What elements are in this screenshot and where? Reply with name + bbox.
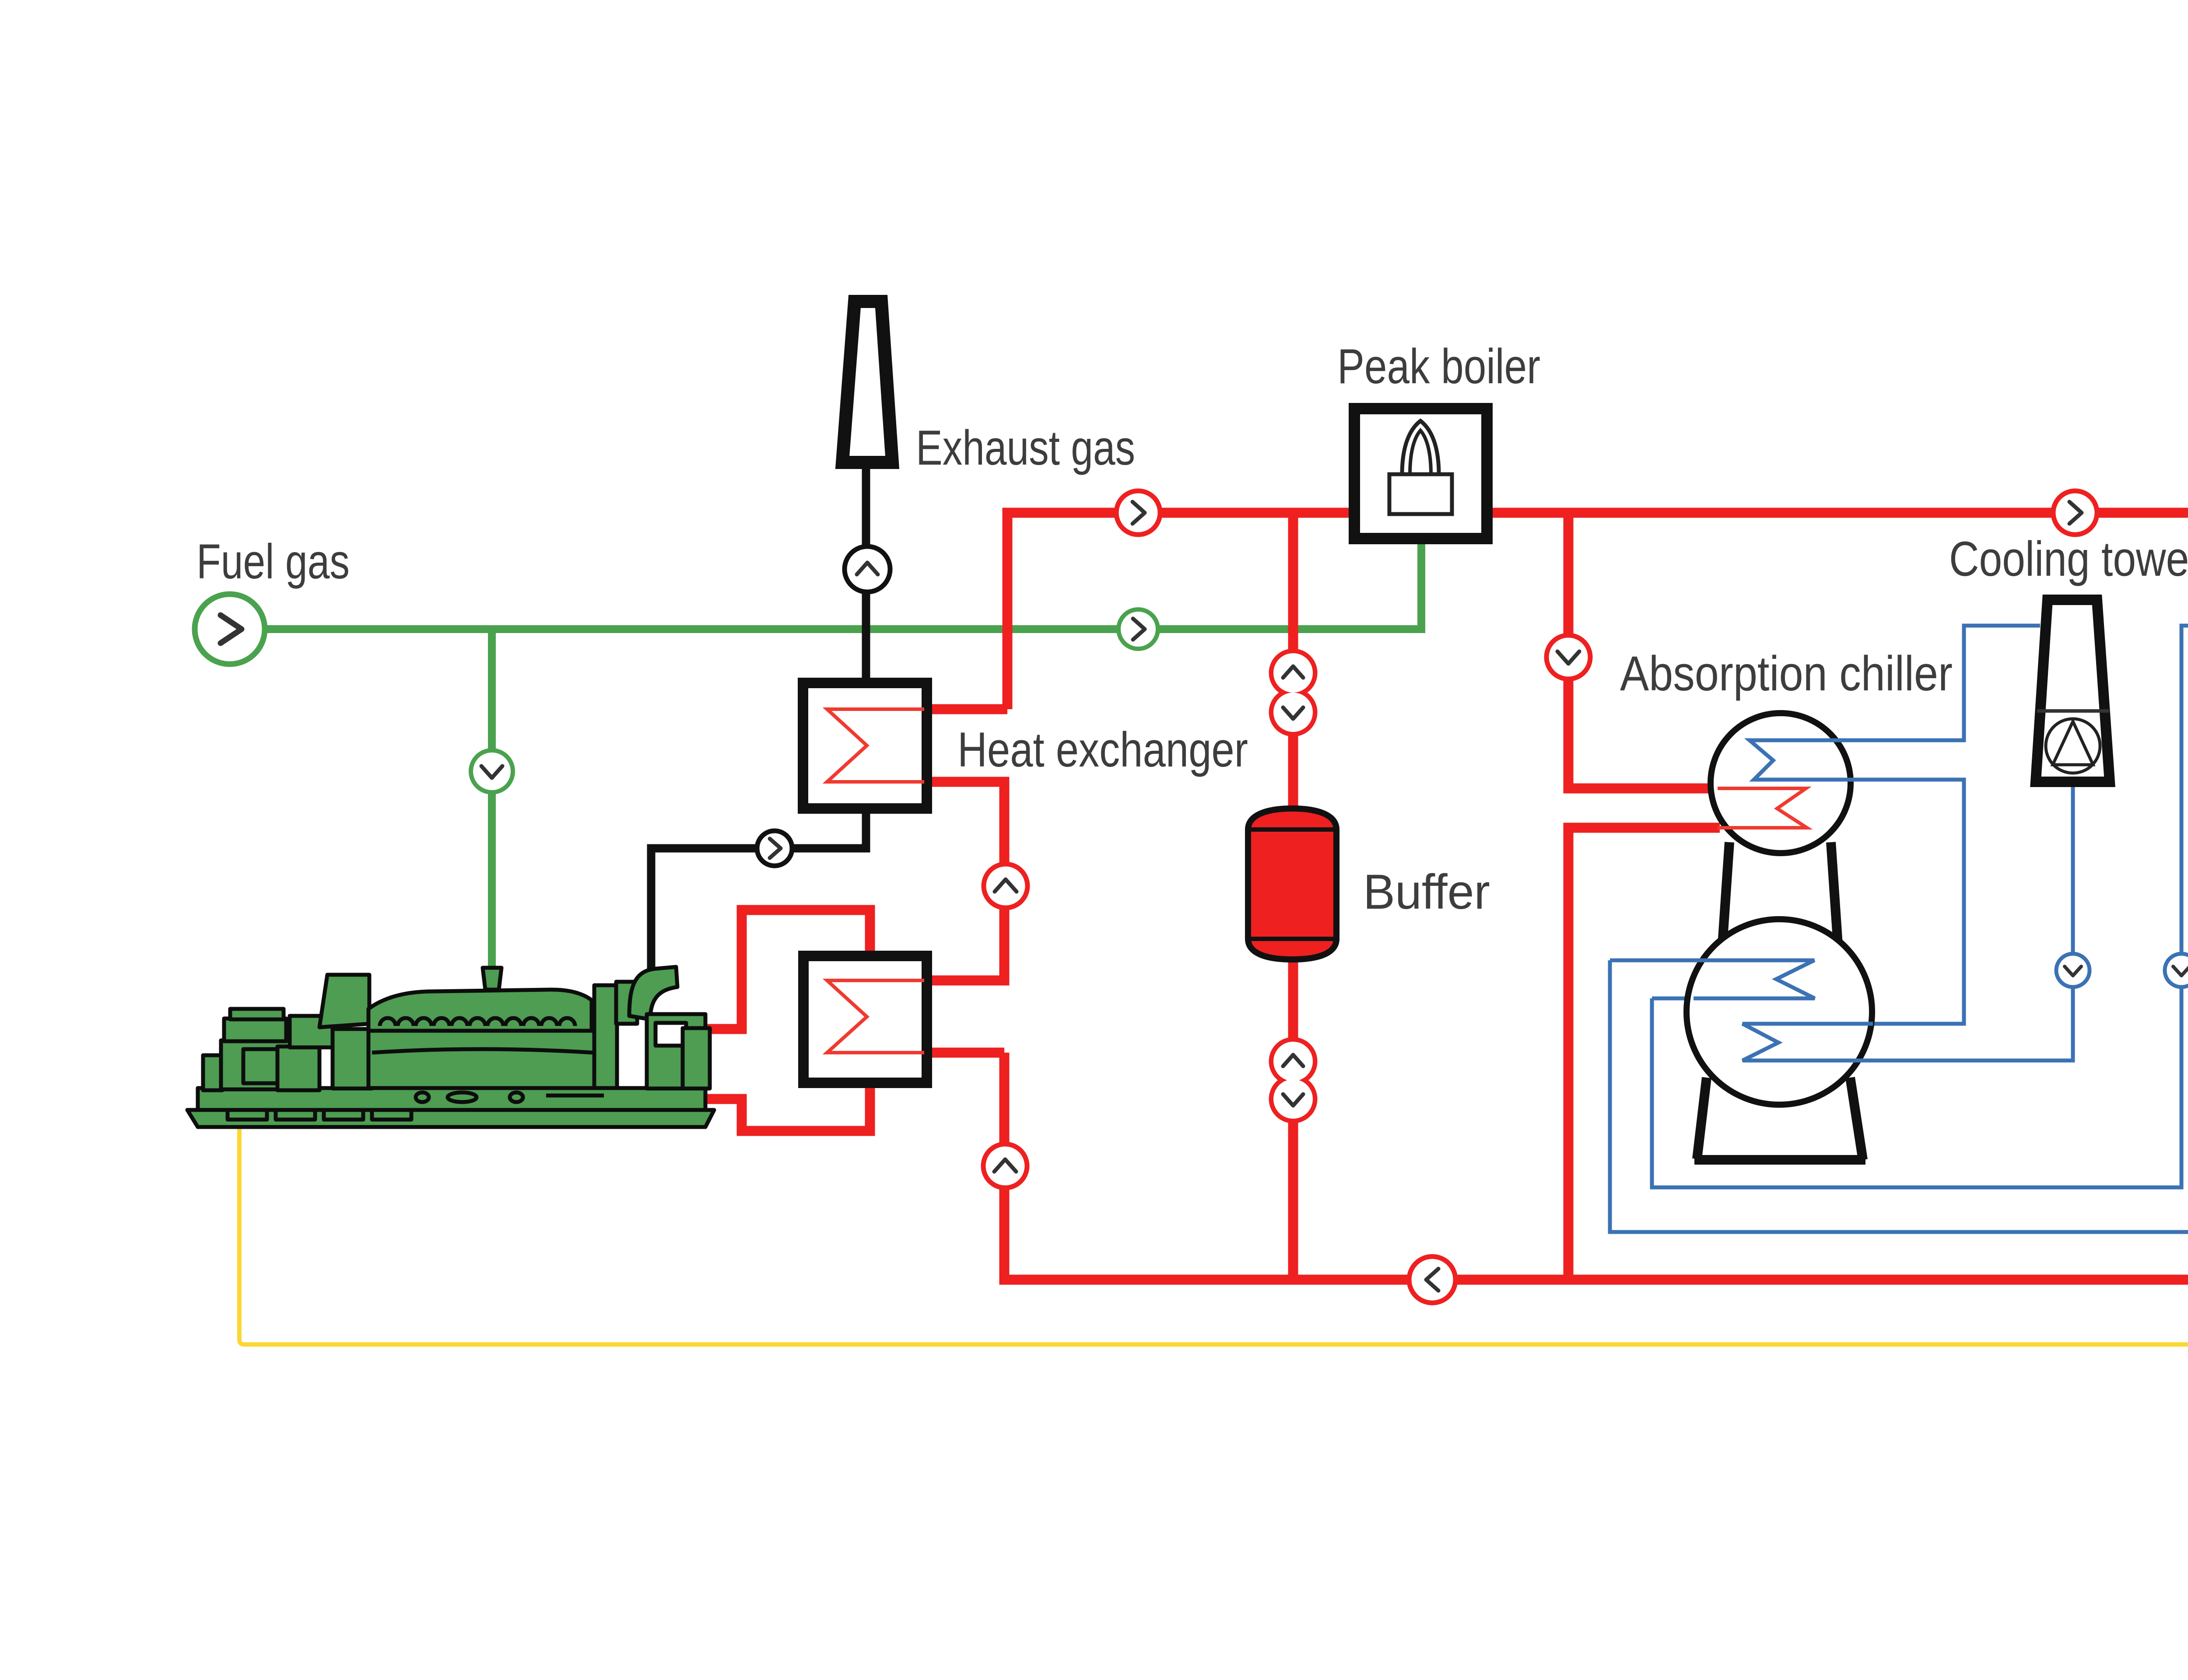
node: blue flow arrow down on consumer return bbox=[2165, 954, 2188, 987]
wire: heat exchanger 2 bottom port (red) bbox=[932, 1048, 1004, 1058]
wire: chilled water supply chiller to refrigeration consumer loop (blue) bbox=[1610, 626, 2188, 1232]
peak boiler burner rectangle bbox=[1389, 474, 1452, 514]
wire: electrical energy (yellow) bbox=[239, 1063, 2188, 1344]
engine left cabinet lower bbox=[221, 1040, 290, 1089]
node: black flow arrow right on exhaust line bbox=[757, 831, 792, 866]
node: red double valve (peanut) below buffer bbox=[1271, 1039, 1315, 1121]
peak boiler box bbox=[1354, 409, 1487, 539]
node: red flow arrow left on bottom return line bbox=[1409, 1256, 1455, 1303]
engine base ovals bbox=[416, 1092, 429, 1102]
node: green flow arrow down on engine fuel branch bbox=[471, 750, 513, 792]
wire: cooling water bottom circle to tower bottom (blue) bbox=[1869, 785, 2073, 1060]
absorption chiller top circle (generator) bbox=[1711, 713, 1851, 853]
engine cylinder head arcs bbox=[380, 1018, 575, 1026]
engine main body top bbox=[368, 990, 592, 1032]
node: red flow arrow up below heat exchanger 2 bbox=[983, 1144, 1027, 1188]
wire: hot water main supply (red) bbox=[1004, 513, 2188, 1280]
node: red flow arrow right on main supply (left) bbox=[1116, 491, 1160, 535]
wire: absorption chiller hot return (red) bbox=[1568, 828, 1720, 1280]
peak boiler flame outer arch bbox=[1402, 421, 1439, 474]
absorption chiller top circle red coil bbox=[1718, 788, 1807, 828]
engine right generator block bbox=[647, 1014, 705, 1088]
engine genset illustration bbox=[187, 967, 714, 1127]
engine exhaust elbow bbox=[629, 967, 677, 1019]
wire: buffer branch (red) bbox=[1288, 513, 1298, 1280]
cooling tower divider line bbox=[2037, 709, 2109, 713]
node: red double valve (peanut) above buffer bbox=[1271, 651, 1315, 734]
wire: cooling water top circle to bottom circle (blue) bbox=[1755, 780, 1964, 1024]
heat exchanger HX1 coil (red sigma) bbox=[827, 709, 924, 782]
chimney (exhaust stack) bbox=[842, 301, 892, 462]
engine turbo pipes bbox=[594, 985, 617, 1088]
engine inner door bbox=[243, 1049, 280, 1083]
node: black flow arrow up on chimney line bbox=[845, 546, 890, 592]
engine mid box bbox=[290, 1016, 334, 1047]
buffer tank bbox=[1248, 808, 1336, 959]
engine mid tall box bbox=[277, 1046, 319, 1090]
wire: heat exchanger 1 bottom port to heat exchanger 2 top port (red) bbox=[932, 782, 1004, 980]
absorption chiller bottom circle lower blue coil bbox=[1743, 1024, 1873, 1060]
node: fuel gas source circle (green, arrow right) bbox=[195, 594, 265, 664]
engine front block bbox=[333, 1029, 372, 1088]
engine left small block bbox=[203, 1055, 222, 1090]
absorption chiller top circle blue coil bbox=[1750, 740, 1855, 780]
svg-text:Absorption chiller: Absorption chiller bbox=[1620, 646, 1953, 701]
wire: cooling water chiller to tower top (blue) bbox=[1755, 626, 2040, 740]
svg-text:Peak boiler: Peak boiler bbox=[1337, 339, 1540, 394]
heat exchanger HX1 box bbox=[803, 683, 927, 808]
absorption chiller bottom circle upper blue coil bbox=[1694, 960, 1815, 998]
engine left cabinet top tier bbox=[230, 1009, 284, 1019]
heat exchanger HX2 coil (red sigma) bbox=[827, 980, 924, 1053]
wire: absorption chiller hot supply (red) bbox=[1568, 513, 1720, 788]
node: blue flow arrow down on tower line bbox=[2056, 954, 2090, 987]
engine main body lower bbox=[368, 1031, 595, 1088]
wire: fuel gas branch to engine (green) bbox=[488, 629, 496, 980]
wire: exhaust gas heat exchanger to chimney (black) bbox=[862, 469, 870, 678]
engine base skid bbox=[198, 1088, 705, 1110]
engine bottom plate bbox=[187, 1110, 714, 1127]
node: red flow arrow up between heat exchangers bbox=[984, 864, 1027, 908]
absorption chiller stand bbox=[1694, 1078, 1865, 1160]
absorption chiller bottom circle (evaporator) bbox=[1687, 919, 1872, 1105]
cooling tower body bbox=[2036, 600, 2110, 782]
cooling tower fan circle bbox=[2046, 719, 2100, 773]
svg-text:Fuel gas: Fuel gas bbox=[196, 534, 350, 589]
wire: engine jacket loop supply (red) bbox=[705, 910, 870, 1029]
absorption chiller connecting trapezoid legs bbox=[1722, 842, 1729, 945]
wire: exhaust gas engine to heat exchanger (black) bbox=[651, 814, 866, 982]
engine right top small block bbox=[683, 1028, 710, 1088]
peak boiler flame inner arch bbox=[1410, 430, 1431, 474]
node: red flow arrow down on chiller supply bbox=[1546, 635, 1590, 679]
engine intake duct bbox=[319, 975, 369, 1027]
svg-text:Buffer: Buffer bbox=[1363, 864, 1490, 919]
engine left cabinet upper tier bbox=[224, 1018, 286, 1041]
heat exchanger HX2 box bbox=[803, 956, 927, 1083]
svg-text:Cooling tower: Cooling tower bbox=[1949, 532, 2188, 586]
wire: red coil thin heat exchanger 1 sigma bbox=[826, 709, 931, 782]
node: green flow arrow right on fuel main bbox=[1119, 609, 1158, 649]
engine body band line bbox=[372, 1049, 593, 1053]
svg-text:Heat exchanger: Heat exchanger bbox=[957, 722, 1248, 777]
wire: engine jacket loop return (red) bbox=[705, 1088, 870, 1131]
node: red flow arrow right on main supply (right) bbox=[2053, 491, 2097, 535]
cooling tower fan triangle bbox=[2053, 721, 2093, 765]
wire: fuel gas main (green) bbox=[238, 544, 1421, 629]
svg-text:Exhaust gas: Exhaust gas bbox=[916, 420, 1135, 475]
engine base feet bbox=[228, 1110, 267, 1120]
wire: red coil thin heat exchanger 2 sigma bbox=[827, 980, 931, 1053]
engine fuel inlet stub bbox=[483, 968, 501, 990]
wire: heat exchanger 1 top port (red) bbox=[932, 704, 1007, 714]
engine right white notch bbox=[656, 1023, 686, 1046]
